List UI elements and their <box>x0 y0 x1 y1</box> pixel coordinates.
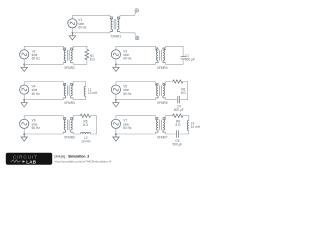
wire source top to transformer primary top <box>72 16 110 19</box>
transformer XFMR7 <box>156 118 166 133</box>
transformer XFMR6 <box>63 118 73 133</box>
wire secondary top to load <box>73 82 86 87</box>
svg-text:XFMR1: XFMR1 <box>110 35 121 39</box>
wire resistor to right edge down to cap <box>181 82 188 100</box>
voltage source V6 <box>20 119 29 128</box>
wire source bottom to ground junction <box>115 94 117 100</box>
svg-text:XFMR6: XFMR6 <box>64 135 75 139</box>
svg-text:500 µF: 500 µF <box>174 108 184 112</box>
wire secondary top to resistor <box>166 116 173 118</box>
voltage source V7 <box>111 119 120 128</box>
svg-text:XFMR5: XFMR5 <box>157 101 168 105</box>
inductor L1 <box>84 86 86 96</box>
wire secondary top to resistor <box>166 82 173 84</box>
logo zigzag <box>11 160 21 163</box>
svg-text:500 µF: 500 µF <box>172 142 182 146</box>
node junction at source bottom <box>23 99 25 101</box>
wire primary bottom to junction <box>116 63 156 65</box>
resistor R5 <box>80 114 90 117</box>
transformer XFMR1 <box>110 17 120 32</box>
inductor L4 <box>187 121 189 131</box>
wire source bottom to ground junction <box>23 94 25 100</box>
svg-text:pinkpig : Simulation_3: pinkpig : Simulation_3 <box>55 155 90 159</box>
svg-text:60 Hz: 60 Hz <box>78 26 87 30</box>
ground <box>113 100 119 107</box>
svg-text:60 Hz: 60 Hz <box>123 57 132 61</box>
wire cap bottom to secondary bottom <box>166 59 184 64</box>
ground <box>21 64 27 71</box>
wire source bottom to ground junction <box>23 128 25 134</box>
wire secondary top to resistor <box>73 116 80 118</box>
node junction at source bottom <box>71 32 73 34</box>
svg-text:60 Hz: 60 Hz <box>123 92 132 96</box>
wire resistor to right edge down to inductor <box>91 116 97 134</box>
node junction at source bottom <box>23 133 25 135</box>
voltage source V4 <box>20 85 29 94</box>
svg-text:8 Ω: 8 Ω <box>181 91 187 95</box>
resistor R8 <box>173 114 183 117</box>
svg-text:XFMR3: XFMR3 <box>157 66 168 70</box>
wire source bottom to ground junction <box>23 59 25 64</box>
capacitor C5 <box>177 130 179 137</box>
svg-text:500 µF: 500 µF <box>185 58 195 62</box>
inductor L2 <box>81 132 91 134</box>
svg-text:XFMR4: XFMR4 <box>64 101 75 105</box>
svg-text:60 Hz: 60 Hz <box>32 57 41 61</box>
capacitor C4 <box>178 96 180 103</box>
wire secondary top to load <box>73 46 87 49</box>
voltage source V2 <box>20 50 29 59</box>
node junction at source bottom <box>115 133 117 135</box>
wire secondary top to cap <box>166 46 184 56</box>
resistor R1 <box>85 49 89 59</box>
transformer XFMR5 <box>156 83 166 98</box>
ground <box>113 134 119 141</box>
ground <box>21 134 27 141</box>
wire load bottom to secondary bottom <box>73 59 87 64</box>
wire primary bottom to junction <box>24 98 63 100</box>
wire source top to primary top <box>24 116 63 120</box>
svg-text:10 mH: 10 mH <box>88 91 98 95</box>
svg-text:XFMR7: XFMR7 <box>157 135 168 139</box>
transformer XFMR4 <box>63 83 73 98</box>
wire source bottom to ground junction <box>115 128 117 134</box>
wire source bottom to ground junction <box>115 59 117 64</box>
wire load bottom to secondary bottom <box>73 96 86 99</box>
wire secondary top to terminal <box>120 12 136 17</box>
wire inductor to secondary bottom <box>73 132 80 134</box>
svg-text:60 Hz: 60 Hz <box>123 126 132 130</box>
wire cap to secondary bottom <box>166 98 177 100</box>
wire source top to primary top <box>24 46 63 50</box>
wire source top to primary top <box>116 116 156 120</box>
voltage source V3 <box>111 50 120 59</box>
svg-text:http://circuitlab.com/c/e74429: http://circuitlab.com/c/e74429/simulatio… <box>55 159 112 163</box>
node junction at source bottom <box>23 63 25 65</box>
resistor R6 <box>173 80 183 83</box>
wire source top to primary top <box>116 82 156 86</box>
node junction at source bottom <box>115 63 117 65</box>
svg-text:XFMR2: XFMR2 <box>64 66 75 70</box>
wire primary bottom to junction <box>116 132 156 134</box>
wire primary bottom to junction <box>116 98 156 100</box>
ground <box>21 100 27 107</box>
terminal T1 <box>135 9 138 12</box>
svg-text:10 mH: 10 mH <box>191 125 201 129</box>
wire primary bottom to junction <box>24 132 63 134</box>
voltage source V1 <box>68 19 77 28</box>
svg-text:LAB: LAB <box>26 159 37 164</box>
svg-text:8 Ω: 8 Ω <box>83 123 89 127</box>
ground <box>69 33 75 40</box>
capacitor C1 <box>181 57 186 59</box>
transformer XFMR2 <box>63 48 73 63</box>
svg-text:10 mH: 10 mH <box>81 140 91 144</box>
wire source top to primary top <box>116 46 156 50</box>
wire inductor bottom to cap <box>179 131 189 135</box>
svg-text:60 Hz: 60 Hz <box>32 92 41 96</box>
wire bottom from transformer primary to junction <box>72 32 110 33</box>
wire cap to secondary bottom <box>166 132 176 134</box>
ground <box>113 64 119 71</box>
svg-text:60 Hz: 60 Hz <box>32 126 41 130</box>
svg-text:8 Ω: 8 Ω <box>90 58 96 62</box>
transformer XFMR3 <box>156 48 166 63</box>
wire source top to primary top <box>24 82 63 86</box>
CircuitLab logo box <box>6 153 52 165</box>
wire resistor to inductor top <box>183 116 189 121</box>
svg-text:8 Ω: 8 Ω <box>176 123 182 127</box>
logo arrow <box>23 160 26 163</box>
terminal T2 <box>136 36 139 39</box>
voltage source V5 <box>111 85 120 94</box>
node junction at source bottom <box>115 99 117 101</box>
wire primary bottom to junction <box>24 63 63 65</box>
wire secondary bottom to terminal <box>120 32 136 36</box>
wire source bottom to ground junction <box>71 28 73 33</box>
